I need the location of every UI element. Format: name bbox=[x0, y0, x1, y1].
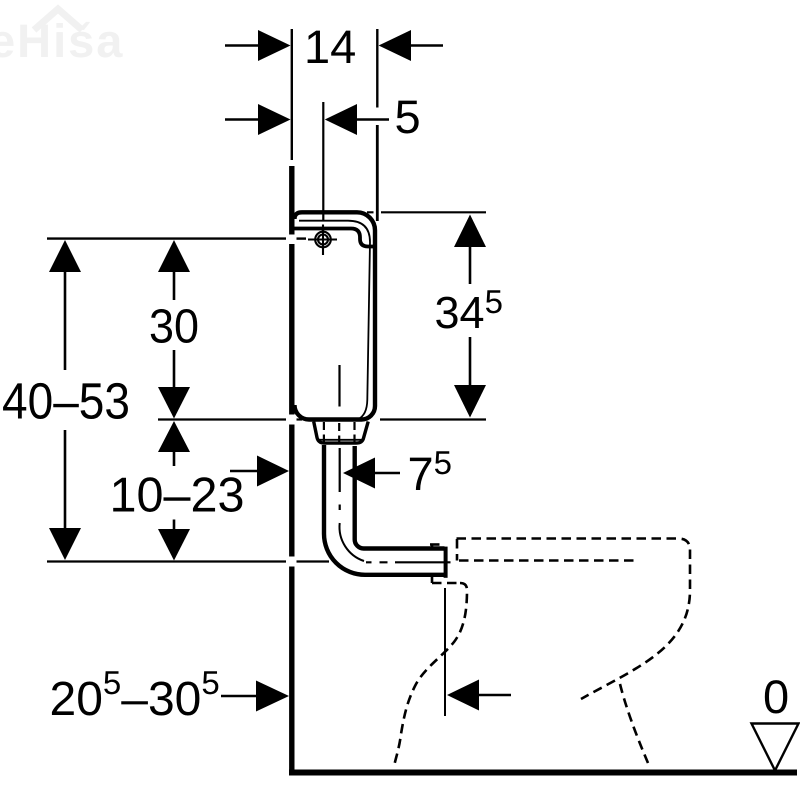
svg-text:10–23: 10–23 bbox=[110, 469, 245, 523]
dimension 10-23: bottom arrowhead bbox=[158, 529, 190, 561]
dimension 10-23: horizontal tail bbox=[230, 470, 258, 472]
flush valve hidden dashes bbox=[324, 422, 355, 443]
svg-text:30: 30 bbox=[149, 301, 199, 354]
dimension 40-53: upper shaft bbox=[64, 271, 67, 370]
svg-text:0: 0 bbox=[763, 670, 789, 723]
dimension 40-53: bottom arrowhead bbox=[49, 528, 81, 560]
dimension 5: right arrowhead pointing left bbox=[325, 104, 357, 135]
dimension 14: left tail bbox=[225, 44, 259, 46]
dimension 30: lower shaft bbox=[173, 350, 176, 388]
dimension 14: right tail bbox=[411, 44, 443, 46]
dimension 10-23: lower shaft bbox=[173, 520, 176, 530]
flush pipe end cap bbox=[444, 547, 448, 578]
svg-text:14: 14 bbox=[304, 20, 356, 73]
pipe centreline bend arc bbox=[339, 523, 364, 561]
extension line pipe centre level bbox=[47, 560, 286, 562]
pipe end extension line down bbox=[444, 588, 446, 716]
dimension 34.5: top arrowhead bbox=[454, 215, 486, 248]
extension line cistern bottom level bbox=[158, 418, 286, 420]
dimension 14: left extension tick bbox=[291, 29, 293, 160]
extension line cistern top right bbox=[367, 211, 486, 213]
dimension 10-23: top arrowhead bbox=[158, 421, 190, 452]
watermark eHisa logo bbox=[0, 14, 124, 67]
svg-text:75: 75 bbox=[408, 444, 453, 500]
cistern lid bottom step bbox=[295, 229, 375, 247]
flush valve left slant bbox=[314, 422, 369, 444]
dimension 20.5-30.5: arrowhead to wall bbox=[256, 681, 289, 712]
dimension 14: right extension tick lower bbox=[376, 125, 379, 221]
bottom arrow pointing left at pipe end line bbox=[447, 680, 479, 711]
wall line bbox=[289, 166, 294, 770]
dimension 7.5: arrowhead pointing left bbox=[343, 458, 375, 489]
mounting screw crosshair bbox=[308, 225, 337, 256]
flush pipe right edge inner bend and top bbox=[355, 446, 445, 549]
dimension 30: bottom arrowhead bbox=[158, 387, 190, 419]
extension line pipe centre level right of wall bbox=[297, 560, 330, 562]
extension line cistern bottom right bbox=[380, 418, 486, 420]
dimension 7.5: tail bbox=[375, 472, 400, 474]
extension line at screw level bbox=[47, 237, 286, 239]
watermark house roof bbox=[34, 9, 82, 30]
dimension 40-53: top arrowhead bbox=[49, 240, 81, 272]
svg-text:eHiša: eHiša bbox=[0, 14, 124, 67]
flush valve inner bottom line bbox=[319, 439, 364, 441]
dimension 10-23: upper shaft bbox=[173, 451, 176, 466]
dimension 34.5: lower shaft bbox=[469, 337, 472, 386]
svg-text:345: 345 bbox=[435, 283, 503, 338]
pipe centreline horizontal dashes bbox=[366, 561, 451, 563]
floor line bbox=[289, 770, 797, 776]
flush pipe left edge and outer bend and bottom bbox=[324, 445, 445, 575]
bottom arrow tail bbox=[479, 694, 511, 696]
cistern outer body bbox=[295, 212, 376, 419]
cistern lid thin seam bbox=[299, 221, 370, 420]
extension line at screw level right of wall bbox=[297, 237, 307, 239]
dimension 5: extension line down to screw bbox=[322, 102, 324, 221]
dimension 14: right extension tick upper bbox=[376, 29, 378, 108]
dimension 40-53: lower shaft bbox=[64, 430, 67, 529]
dimension 5: left arrowhead bbox=[258, 104, 291, 135]
dimension 30: upper shaft bbox=[173, 271, 176, 300]
dimension 14: right arrowhead bbox=[379, 30, 411, 61]
dimension 34.5: bottom arrowhead bbox=[454, 385, 486, 418]
dimension 10-23: horizontal arrowhead to wall bbox=[257, 456, 289, 487]
dimension 30: top arrowhead bbox=[158, 240, 190, 272]
dimension 14: left arrowhead bbox=[258, 30, 291, 61]
cistern internal centreline dash bbox=[338, 365, 340, 407]
svg-text:40–53: 40–53 bbox=[2, 373, 130, 430]
svg-text:5: 5 bbox=[395, 90, 421, 143]
dimension 20.5-30.5: tail bbox=[221, 695, 257, 697]
dimension 34.5: upper shaft bbox=[469, 246, 472, 284]
dimension 5: right tail bbox=[357, 118, 389, 120]
pipe centreline vertical dash-dot bbox=[339, 448, 341, 510]
extension line cistern bottom level right stub bbox=[297, 418, 303, 420]
datum triangle bbox=[752, 724, 799, 771]
svg-text:205–305: 205–305 bbox=[50, 664, 220, 726]
toilet bowl rim top dashed bbox=[394, 539, 690, 768]
dimension 5: left tail bbox=[225, 118, 259, 120]
